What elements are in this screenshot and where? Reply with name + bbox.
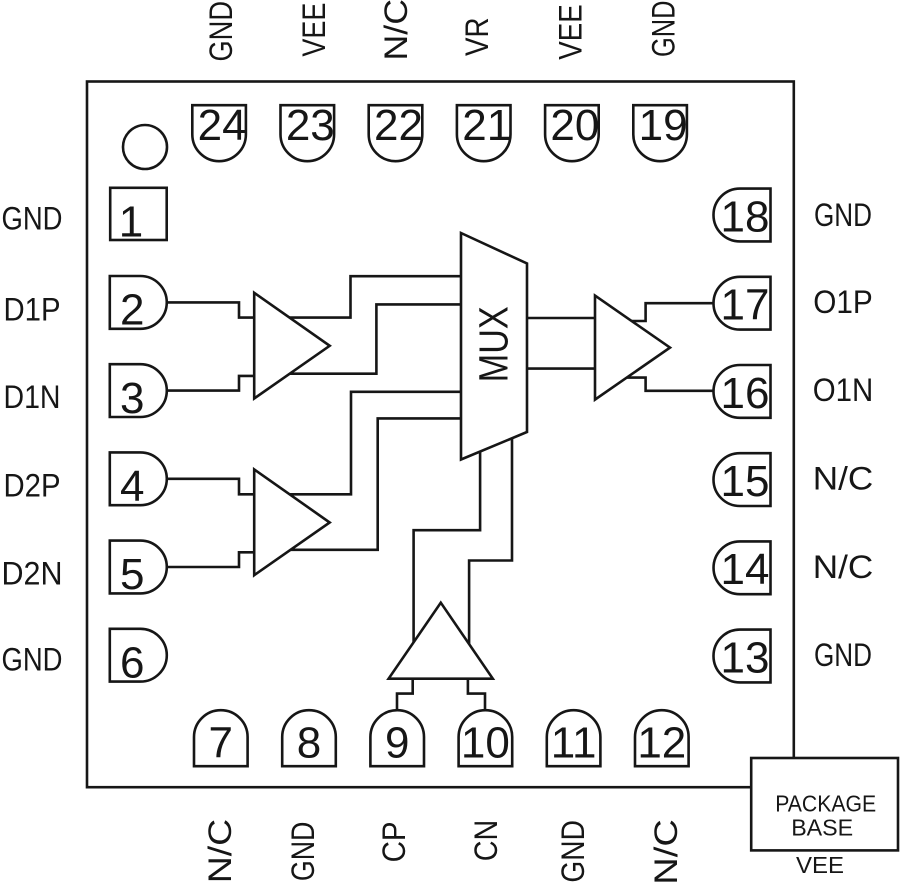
pin 22 (369, 105, 423, 161)
pin 8 (282, 710, 336, 766)
comparator U4 (clock buffer) (389, 603, 493, 679)
svg-text:N/C: N/C (813, 548, 874, 585)
wire MUX select A from comparator U4 (414, 446, 481, 652)
svg-text:O1N: O1N (813, 371, 874, 408)
svg-text:GND: GND (554, 820, 591, 883)
svg-text:MUX: MUX (471, 306, 517, 382)
svg-text:24: 24 (198, 101, 247, 150)
package outline (87, 82, 794, 788)
svg-text:14: 14 (721, 545, 770, 594)
svg-text:21: 21 (462, 101, 511, 150)
svg-text:GND: GND (2, 640, 63, 677)
buffer U1 (inputs D1P/D1N) (254, 293, 330, 399)
pin 18 (714, 189, 771, 242)
package base box (751, 758, 898, 850)
svg-text:GND: GND (814, 196, 872, 233)
pin 4 (110, 452, 167, 505)
svg-text:N/C: N/C (377, 0, 414, 61)
svg-text:GND: GND (644, 1, 681, 58)
svg-text:VR: VR (458, 18, 495, 57)
wire MUX select B from comparator U4 (469, 428, 512, 654)
svg-text:2: 2 (120, 286, 144, 335)
wire buffer U2 output + to MUX input 3 (282, 392, 466, 495)
svg-text:N/C: N/C (813, 460, 874, 497)
svg-text:GND: GND (284, 822, 321, 882)
wire buffer U3 output + to pin 17 (622, 303, 716, 321)
svg-text:VEE: VEE (295, 3, 332, 57)
wire buffer U1 output - to MUX input 2 (283, 304, 466, 373)
svg-text:D2P: D2P (4, 466, 61, 503)
wire buffer U2 output - to MUX input 4 (283, 418, 466, 549)
svg-text:19: 19 (639, 101, 688, 150)
pin 19 (633, 105, 687, 161)
svg-text:CN: CN (467, 820, 504, 862)
pin 15 (714, 453, 771, 506)
svg-text:D1N: D1N (4, 378, 61, 415)
svg-text:PACKAGE: PACKAGE (775, 790, 876, 816)
svg-text:VEE: VEE (551, 4, 588, 60)
pin 14 (714, 541, 771, 594)
svg-text:N/C: N/C (201, 819, 238, 884)
wire MUX output 2 to buffer U3 (522, 367, 605, 370)
wire comparator U4 input to pin 9 CP (397, 668, 413, 714)
svg-text:20: 20 (550, 101, 599, 150)
wire pin4 to buffer U2 input + (167, 479, 263, 495)
svg-text:13: 13 (721, 633, 770, 682)
svg-text:GND: GND (2, 200, 63, 237)
svg-text:N/C: N/C (647, 819, 684, 884)
svg-text:12: 12 (637, 718, 686, 767)
pin 24 (192, 105, 246, 161)
pin 3 (110, 364, 167, 417)
pin 17 (714, 277, 771, 330)
pin 7 (194, 710, 248, 766)
pin 1 (square) (110, 188, 167, 240)
svg-text:O1P: O1P (813, 283, 873, 320)
svg-text:11: 11 (551, 718, 597, 767)
svg-text:6: 6 (120, 638, 144, 687)
svg-text:1: 1 (119, 197, 143, 246)
svg-text:5: 5 (120, 550, 144, 599)
svg-text:D1P: D1P (4, 290, 61, 327)
svg-text:GND: GND (814, 636, 872, 673)
svg-text:CP: CP (375, 821, 412, 862)
svg-text:3: 3 (120, 374, 144, 423)
svg-text:10: 10 (461, 718, 510, 767)
pin 12 (635, 710, 689, 766)
wire comparator U4 input to pin 10 CN (468, 668, 485, 714)
pin 20 (545, 105, 599, 161)
svg-text:22: 22 (374, 101, 423, 150)
svg-text:4: 4 (120, 462, 144, 511)
pin 1 indicator circle (123, 125, 167, 169)
svg-text:15: 15 (721, 457, 770, 506)
wire pin5 to buffer U2 input - (167, 552, 263, 567)
pin 9 (370, 710, 424, 766)
svg-text:VEE: VEE (796, 852, 844, 878)
svg-text:8: 8 (297, 718, 321, 767)
pin 21 (457, 105, 511, 161)
pin 5 (110, 541, 167, 594)
svg-text:7: 7 (209, 718, 233, 767)
pin 23 (281, 105, 335, 161)
svg-text:BASE: BASE (791, 814, 853, 840)
svg-text:D2N: D2N (2, 554, 63, 591)
pin 13 (714, 630, 771, 683)
wire buffer U3 output - to pin 16 (620, 378, 716, 391)
buffer U2 (inputs D2P/D2N) (254, 469, 330, 575)
wire pin2 to buffer U1 input + (167, 302, 263, 317)
MUX U5 (461, 233, 527, 460)
svg-text:18: 18 (721, 192, 770, 241)
pin 2 (110, 276, 167, 329)
svg-text:17: 17 (721, 281, 770, 330)
wire buffer U1 output + to MUX input 1 (282, 276, 466, 317)
svg-text:GND: GND (202, 1, 239, 62)
svg-text:16: 16 (721, 369, 770, 418)
pin 6 (110, 629, 167, 682)
pin 10 (459, 710, 513, 766)
wire MUX output 1 to buffer U3 (522, 317, 605, 320)
wire pin3 to buffer U1 input - (167, 376, 263, 391)
pin 11 (547, 710, 601, 766)
pin 16 (714, 365, 771, 418)
svg-text:23: 23 (286, 101, 335, 150)
svg-text:9: 9 (385, 718, 409, 767)
output buffer U3 (595, 296, 670, 400)
